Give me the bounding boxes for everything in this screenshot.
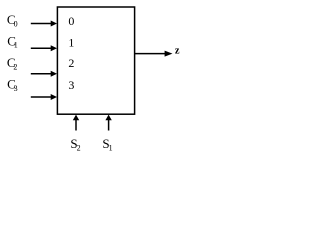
wire: C0 input arrow	[31, 21, 57, 27]
svg-text:1: 1	[68, 36, 74, 50]
output label z	[175, 46, 180, 57]
svg-text:z: z	[175, 46, 180, 57]
svg-text:3: 3	[68, 78, 74, 92]
multiplexer box U1	[57, 7, 134, 114]
select label S2	[70, 136, 80, 152]
pin label 1	[68, 36, 74, 50]
input label C1	[7, 33, 17, 49]
input label C3	[7, 77, 18, 94]
svg-text:0: 0	[14, 20, 18, 29]
wire: C2 input arrow	[31, 71, 57, 77]
svg-text:1: 1	[109, 143, 113, 152]
input label C0	[7, 12, 18, 29]
wire: C3 input arrow	[31, 94, 57, 100]
select label S1	[102, 136, 112, 152]
svg-text:2: 2	[13, 62, 17, 71]
wire: select S2 arrow	[73, 115, 79, 131]
svg-text:2: 2	[68, 56, 74, 70]
wire: C1 input arrow	[31, 45, 57, 51]
pin label 0	[68, 14, 74, 28]
pin label 2	[68, 56, 74, 70]
pin label 3	[68, 78, 74, 92]
svg-text:3: 3	[14, 84, 18, 93]
svg-text:0: 0	[68, 14, 74, 28]
wire: select S1 arrow	[105, 115, 111, 131]
svg-text:2: 2	[77, 143, 81, 152]
svg-text:1: 1	[14, 41, 18, 50]
input label C2	[7, 55, 18, 72]
wire: output arrow	[135, 51, 173, 57]
